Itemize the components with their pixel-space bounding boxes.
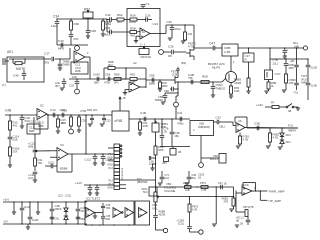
svg-text:C27: C27 [218, 181, 223, 185]
capacitor C41 [95, 184, 100, 193]
capacitor C1B3 [177, 212, 192, 228]
wire from node 3 [163, 51, 171, 53]
svg-text:4KB: 4KB [158, 148, 163, 152]
svg-text:5K2: 5K2 [143, 190, 148, 194]
label R1B 4K1 [87, 108, 98, 112]
label IC TLE72 [86, 197, 100, 201]
svg-text:4L: 4L [271, 84, 274, 88]
capacitor CA87 series [93, 73, 100, 85]
resistor R67 47B [234, 62, 250, 91]
wire to header [86, 153, 114, 155]
wire row B wiper [162, 196, 234, 198]
ground below R67 [246, 91, 250, 93]
svg-text:1B: 1B [164, 130, 167, 134]
node circled bottom mid [190, 229, 204, 234]
svg-text:R5A: R5A [130, 14, 136, 18]
capacitor C31b series [177, 111, 184, 126]
label R2L2 [236, 216, 245, 225]
resistor R7B1 [239, 133, 250, 147]
resistor R63 below tube [267, 80, 276, 92]
ground below D26 [86, 36, 90, 38]
wire y79 row [69, 78, 126, 80]
svg-text:4?B: 4?B [249, 206, 254, 209]
wire bottom of supply block [57, 44, 88, 46]
wire inside mute box [9, 58, 44, 60]
svg-text:D8: D8 [168, 54, 172, 58]
resistor R60 [70, 18, 80, 34]
svg-text:U6: U6 [238, 119, 242, 123]
svg-text:+11V: +11V [75, 181, 83, 185]
svg-text:1B: 1B [81, 209, 84, 213]
svg-text:(C2 - C21): (C2 - C21) [58, 194, 71, 198]
svg-text:4K4: 4K4 [61, 121, 66, 125]
svg-text:HP_AMP: HP_AMP [269, 199, 282, 203]
wire stage2 to uP4B box [86, 114, 112, 116]
wire to FET3 gate [146, 79, 171, 81]
label TWT FLK AMP [301, 74, 308, 85]
svg-text:10K: 10K [146, 55, 151, 59]
transistor FET3 2CB [171, 70, 178, 85]
ground below tube resistor [264, 91, 268, 93]
wire FET3 source rail [178, 81, 222, 83]
ground below C10 [20, 126, 24, 128]
ground below C1CB [101, 163, 105, 165]
capacitor C66 col E [306, 83, 317, 100]
svg-text:UB2: UB2 [199, 122, 205, 126]
svg-text:(C2): (C2) [28, 176, 34, 180]
ground below minus rail [26, 224, 30, 229]
box UB2b lower [201, 136, 226, 164]
svg-text:R6D: R6D [202, 75, 208, 79]
capacitor D26 [86, 18, 97, 36]
svg-text:C17: C17 [44, 52, 50, 56]
label -0V rail [3, 220, 9, 224]
ground stub rail1 second [36, 201, 40, 214]
wire collector to box above [230, 56, 232, 72]
svg-text:4.7B: 4.7B [201, 188, 207, 192]
svg-text:100R: 100R [129, 20, 136, 24]
resistor R15 chain [9, 114, 19, 130]
label VR2 block [164, 182, 176, 193]
svg-text:R21B: R21B [183, 181, 190, 185]
wire U20 output [252, 190, 267, 192]
resistor R19 col [154, 132, 164, 155]
ground below R42 [158, 89, 162, 91]
wire header stub1 [108, 147, 114, 149]
svg-text:1B: 1B [198, 177, 201, 180]
capacitor C63 col D [289, 47, 298, 82]
resistor R6B2 col [222, 196, 235, 209]
ground at U2B plus input [123, 90, 129, 95]
svg-text:22LJ: 22LJ [273, 62, 279, 66]
wire stage2 down to header line [85, 115, 87, 154]
wire mid rail y146 [160, 146, 190, 148]
svg-text:TM6: TM6 [106, 207, 111, 210]
ground below C41 [95, 193, 99, 195]
svg-text:VB3: VB3 [162, 162, 167, 165]
svg-text:R7B: R7B [81, 109, 87, 113]
connector P1 side text [121, 168, 123, 180]
svg-text:C58: C58 [105, 73, 111, 77]
resistor R7B col [78, 109, 87, 130]
ground below R19 [150, 163, 156, 170]
ground below R65 [229, 96, 233, 98]
svg-text:A2(C2): A2(C2) [241, 183, 249, 187]
svg-text:TMB5: TMB5 [63, 63, 71, 67]
capacitor C15 [60, 108, 66, 117]
svg-text:CA87: CA87 [93, 73, 100, 77]
wire header stub2 [108, 159, 114, 161]
svg-text:ZD4: ZD4 [286, 133, 292, 137]
op-amp U16 [236, 119, 245, 133]
capacitor C33 [214, 116, 237, 129]
capacitor C5N1 TMB2O [211, 81, 226, 95]
svg-text:C32: C32 [105, 13, 111, 17]
relay driver box C17R [243, 47, 254, 62]
supply arrow above uP4B [119, 97, 126, 111]
svg-text:E1M: E1M [33, 218, 39, 222]
svg-text:MUTE: MUTE [16, 67, 26, 71]
potentiometer VR11 [141, 187, 157, 196]
box C11 network [27, 120, 40, 135]
svg-text:10K: 10K [72, 75, 77, 79]
svg-text:C49: C49 [13, 74, 19, 78]
capacitor C2N [76, 201, 86, 224]
wire CE1 onward [55, 58, 70, 60]
svg-text:1MF8: 1MF8 [55, 207, 62, 211]
capacitor TMB6 [58, 58, 70, 68]
resistor R6B series [114, 73, 121, 85]
svg-text:9K2: 9K2 [108, 63, 113, 67]
op-amp U2B [129, 79, 140, 93]
capacitor C2B drop [81, 114, 94, 124]
svg-text:9P1: 9P1 [114, 81, 119, 85]
svg-text:-75L: -75L [293, 91, 299, 95]
label +11V right [75, 181, 83, 185]
wire P12 pins [120, 185, 127, 189]
svg-text:16uF: 16uF [51, 24, 58, 28]
svg-text:75F: 75F [188, 76, 193, 80]
svg-text:2A: 2A [142, 30, 145, 34]
wire row A y187 [156, 186, 234, 188]
svg-text:47Bn: 47Bn [177, 122, 184, 126]
capacitor C6B series [149, 74, 155, 86]
svg-text:1B: 1B [240, 223, 243, 226]
svg-text:R7: R7 [271, 101, 275, 105]
svg-text:R11: R11 [293, 41, 298, 45]
feedback box U13 [127, 9, 160, 47]
svg-text:BKL: BKL [192, 177, 197, 180]
svg-text:C2D: C2D [106, 120, 111, 123]
ground below C2D drop [100, 124, 104, 126]
capacitor C1D [45, 161, 57, 169]
svg-text:+CL(AVD): +CL(AVD) [164, 186, 176, 190]
wire switch row [265, 106, 286, 108]
wire row A elbow down [233, 187, 235, 197]
ground below C5B [161, 102, 165, 104]
ground below TMB6 [58, 68, 62, 70]
connector P1 top circles [120, 145, 122, 157]
wire FET to C47 [194, 46, 213, 48]
resistor R70 [271, 101, 279, 109]
feedback U20 [243, 183, 256, 192]
svg-text:C7B: C7B [273, 58, 278, 62]
ground below C35 [168, 38, 172, 40]
transistor Q1 FETS 4-75 [186, 42, 196, 61]
ground below C60 [283, 56, 287, 58]
resistor R6B2 out [269, 127, 280, 146]
junction dots box bottom [91, 224, 129, 225]
resistor R65 emitter [230, 83, 240, 97]
capacitor C1 [141, 2, 150, 9]
svg-text:4K1: 4K1 [13, 124, 18, 128]
svg-text:41B: 41B [185, 188, 190, 192]
capacitor E1M [28, 201, 39, 224]
svg-text:2L2B: 2L2B [311, 66, 317, 70]
op-amp U11 [74, 51, 89, 63]
capacitor C41 [105, 26, 111, 37]
resistor R11B 51K [9, 147, 20, 166]
ground below R11B [8, 165, 12, 167]
svg-text:MLL: MLL [105, 33, 111, 37]
svg-text:4.7B: 4.7B [192, 208, 198, 212]
node 2 circled terminal [75, 45, 80, 50]
wire U2B output [140, 68, 146, 88]
wire U15 inputs [35, 151, 57, 157]
svg-text:2CB: 2CB [172, 72, 177, 76]
resistor R68 col C [285, 74, 297, 90]
svg-text:2 - 1: 2 - 1 [140, 43, 146, 47]
svg-text:(C2): (C2) [165, 177, 170, 180]
svg-text:P12: P12 [108, 167, 113, 170]
svg-text:C47: C47 [209, 42, 215, 46]
svg-text:R6B: R6B [62, 109, 68, 113]
capacitor C2C rails [50, 217, 60, 221]
switch S1 [286, 104, 298, 114]
ground below C5N1 [211, 95, 215, 97]
resistor R42 drop [159, 79, 169, 89]
capacitor C1B series [140, 111, 146, 121]
svg-text:4KB: 4KB [143, 124, 148, 128]
node U20 output [255, 190, 256, 191]
svg-text:C5R: C5R [164, 89, 169, 93]
svg-text:2: 2 [87, 51, 89, 55]
wire U16 output [245, 127, 298, 130]
wire U11 output down [85, 57, 90, 79]
wire U20 input column [236, 191, 244, 213]
svg-text:C33: C33 [69, 84, 74, 88]
capacitor C23 drop [69, 78, 79, 89]
ground below R11c [138, 133, 142, 135]
node circled below C23 [75, 89, 80, 94]
capacitor C19 stub [149, 155, 156, 180]
IC box UB2 switch [190, 121, 214, 136]
svg-text:IC2 TLE72: IC2 TLE72 [86, 197, 100, 201]
capacitor C27 [216, 181, 228, 189]
capacitor C5B TMB2D [154, 92, 178, 102]
svg-text:C8L: C8L [55, 217, 60, 221]
svg-text:(R6L): (R6L) [28, 145, 35, 149]
op-amp U18 [113, 208, 123, 218]
svg-text:(B.: (B. [224, 183, 227, 186]
capacitor C58 series [104, 73, 111, 85]
ground at U13 plus input [134, 36, 140, 43]
capacitor C2B rails [50, 201, 62, 224]
label pins 2-1 [140, 43, 146, 47]
svg-text:BDB8: BDB8 [60, 167, 68, 171]
connector P1 pin labels [107, 153, 113, 190]
svg-text:R6A: R6A [117, 13, 123, 17]
svg-text:U13: U13 [153, 22, 159, 26]
wire up to supply block [69, 48, 71, 59]
svg-text:5R2: 5R2 [44, 61, 50, 65]
label P12 BDPNB [137, 177, 148, 184]
node circled bottom jack [156, 228, 168, 232]
resistor R6T8 drop [188, 196, 199, 212]
capacitor C38 75F [188, 73, 194, 84]
capacitor C2M [76, 217, 86, 221]
svg-text:R57: R57 [84, 8, 90, 12]
svg-text:C30: C30 [58, 39, 64, 43]
capacitor C114 51B [8, 130, 20, 147]
svg-text:VB2: VB2 [166, 182, 172, 186]
capacitor C5R stub [164, 87, 179, 93]
mute box [7, 57, 44, 82]
svg-text:(T): (T) [2, 83, 6, 87]
svg-text:B2B: B2B [29, 129, 34, 133]
capacitor C26 feedback [145, 14, 152, 22]
svg-text:3P7: 3P7 [55, 84, 60, 88]
ground below R6B2 col [229, 209, 233, 211]
potentiometer VR3 10K [139, 46, 151, 59]
capacitor C34 16uF [51, 19, 59, 45]
feedback box U15 [57, 154, 72, 172]
node circled below UB2 [199, 163, 204, 168]
ground inside box [93, 213, 97, 219]
svg-text:C26: C26 [145, 14, 151, 18]
svg-text:C3B: C3B [254, 122, 260, 126]
svg-text:51B: 51B [13, 138, 18, 142]
svg-text:2.2B: 2.2B [224, 50, 230, 54]
capacitor C62 col C [284, 58, 294, 74]
svg-text:+1N: +1N [3, 198, 9, 202]
capacitor C14 [50, 108, 56, 117]
node stage2 branch [85, 114, 86, 154]
label C1D3 [198, 174, 205, 180]
svg-text:D26: D26 [91, 29, 97, 33]
capacitor C49 [13, 70, 26, 80]
svg-text:4R2B: 4R2B [234, 81, 241, 85]
label R6B8 45OB [159, 210, 166, 217]
svg-text:47B: 47B [223, 200, 228, 204]
capacitor C10 input [20, 114, 31, 126]
svg-text:S2: S2 [40, 104, 44, 108]
svg-text:R6B: R6B [114, 73, 120, 77]
svg-text:MLPS: MLPS [212, 66, 220, 70]
box VB3 small [162, 157, 169, 165]
op-amp U15 [57, 143, 68, 161]
resistor R61 240 [184, 24, 193, 41]
ground below R64 [101, 34, 105, 36]
ground bottom right [235, 225, 239, 227]
svg-text:C1: C1 [146, 2, 150, 6]
svg-text:R5B: R5B [130, 27, 136, 31]
svg-text:R4B: R4B [75, 69, 81, 73]
connector P1 pin header [114, 144, 120, 190]
op-amp U18b [125, 208, 134, 218]
svg-text:2Bn: 2Bn [175, 134, 180, 138]
ground below C2B bkl [185, 183, 189, 185]
svg-text:R1B: R1B [87, 108, 92, 112]
svg-text:C14: C14 [50, 108, 56, 112]
svg-text:+2B: +2B [289, 59, 294, 63]
wire rail plus [3, 201, 87, 203]
svg-text:AMP: AMP [301, 81, 307, 85]
capacitor C48 bottom right [246, 217, 251, 226]
op-amp U14 [37, 104, 47, 120]
capacitor CE1 [44, 52, 54, 65]
svg-text:4K8: 4K8 [130, 34, 135, 38]
resistor R11c col [139, 118, 148, 133]
svg-text:AE1: AE1 [7, 50, 13, 54]
svg-text:E13: E13 [25, 205, 30, 209]
svg-text:1B: 1B [123, 97, 126, 100]
svg-text:PJ1: PJ1 [288, 124, 293, 128]
svg-text:C31: C31 [177, 111, 183, 115]
label C34b [256, 103, 263, 107]
ground bottom left chain [33, 180, 37, 182]
svg-text:1KB: 1KB [234, 89, 239, 93]
ground below R7B1 [236, 146, 240, 148]
svg-text:TMB2O: TMB2O [216, 87, 227, 91]
svg-text:47B: 47B [289, 81, 294, 85]
svg-text:(C2L): (C2L) [178, 223, 184, 226]
potentiometer VRB4 [152, 118, 168, 132]
ground after switch [296, 107, 300, 110]
column B from rail [269, 47, 279, 70]
svg-text:C1C2: C1C2 [84, 158, 91, 162]
vacuum tube V1 [265, 70, 281, 80]
node B circled output [293, 41, 308, 50]
resistor R21B [183, 181, 191, 192]
resistor R6D [201, 75, 209, 84]
wire branch down to lower path [106, 20, 108, 33]
resistor R15b mid [57, 114, 67, 131]
node HP branch [260, 190, 261, 191]
label T terminal [2, 83, 6, 87]
wire col B to col C [270, 58, 308, 60]
svg-text:4K1: 4K1 [93, 108, 98, 112]
op-amp U19 [139, 208, 148, 218]
ground below C4C [60, 88, 64, 90]
label VB2 VOLUME [152, 203, 159, 211]
svg-text:C41: C41 [105, 26, 111, 30]
label C4B input [5, 109, 11, 113]
capacitor C47 [209, 42, 215, 51]
wire tone rail y119 [129, 118, 190, 120]
connector AE1 jack [3, 50, 13, 65]
feedback loop U16 [235, 117, 247, 128]
svg-text:R4B: R4B [38, 124, 44, 128]
wire mute to CE1 [44, 58, 51, 60]
wire U15 output [68, 153, 86, 155]
zener ZD5 [280, 137, 291, 144]
ground below C40 [88, 193, 92, 195]
svg-text:(B2): (B2) [181, 61, 186, 65]
svg-text:GND: GND [107, 186, 113, 189]
node 1 circled [174, 102, 179, 107]
mute switch loop [12, 58, 26, 71]
